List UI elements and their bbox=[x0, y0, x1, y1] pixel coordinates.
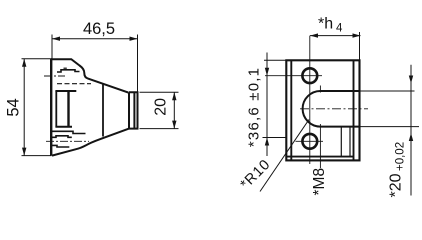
svg-text:4: 4 bbox=[336, 23, 343, 35]
dimension 20+0,02 extension bottom (slot bottom extended) bbox=[360, 126, 420, 128]
svg-text:*20: *20 bbox=[388, 173, 405, 197]
dimension 46,5 arrows bbox=[52, 37, 138, 41]
dimension h4 arrows bbox=[310, 33, 361, 37]
dimension 20 extension bottom bbox=[140, 128, 179, 130]
serration line bottom 3 bbox=[52, 145, 69, 147]
dimension 20+0,02 extension top (slot top extended) bbox=[360, 90, 415, 92]
dimension 54 extension bottom bbox=[22, 155, 52, 157]
svg-text:46,5: 46,5 bbox=[83, 20, 115, 38]
dimension 20 arrows bbox=[172, 92, 176, 128]
svg-text:*h: *h bbox=[318, 16, 333, 33]
dimension 20+0,02 arrows (outside) bbox=[409, 76, 413, 142]
serration line bottom 2 bbox=[52, 136, 72, 138]
dimension h4: dim line bbox=[310, 35, 361, 37]
dimension 54 left: dim line bbox=[23, 59, 25, 156]
slot bottom edge bbox=[320, 126, 359, 128]
dimension 36,6 extension plate-top bbox=[264, 59, 286, 61]
dimension 54 extension top bbox=[22, 58, 53, 60]
slot profile rectangle left view bbox=[55, 91, 76, 127]
plate outline bbox=[286, 60, 359, 160]
dimension 46,5 extension line right bbox=[137, 35, 139, 93]
hole bottom horizontal centerline bbox=[296, 140, 324, 142]
serration tooth mark top bbox=[64, 67, 67, 69]
part outline left view bbox=[51, 59, 138, 156]
dimension 36,6 extension lower bbox=[263, 137, 287, 139]
hole centerline bottom (side view) bbox=[46, 140, 89, 142]
slot arc R10 bbox=[303, 91, 321, 127]
hole top bbox=[302, 68, 317, 83]
plate inner bottom edge bbox=[286, 156, 353, 158]
R10 leader line bbox=[260, 120, 309, 192]
holes vertical centerline (also h4 extension) bbox=[309, 36, 311, 164]
cone seam vertical bbox=[102, 84, 104, 137]
plate inner right edge bbox=[353, 60, 355, 160]
svg-text:20: 20 bbox=[153, 98, 170, 116]
dimension 20+0,02: dim line bbox=[410, 65, 412, 196]
dimension h4 extension right bbox=[359, 32, 361, 60]
dimension 20 dim line bbox=[173, 92, 175, 128]
slot top edge bbox=[320, 90, 359, 92]
hole bottom bbox=[302, 134, 317, 149]
dimension 36,6 arrows (outside) bbox=[265, 68, 269, 146]
dimension 20 extension top bbox=[140, 91, 179, 93]
plate inner left edge bbox=[290, 60, 292, 160]
dimension 46,5 top: dim line bbox=[52, 38, 138, 40]
svg-text:54: 54 bbox=[5, 98, 23, 116]
hole centerline top (side view) bbox=[44, 75, 65, 77]
below-slot edge line 2 bbox=[349, 127, 351, 158]
svg-text:+0,02: +0,02 bbox=[395, 142, 407, 171]
svg-text:*36,6 ±0,1: *36,6 ±0,1 bbox=[246, 67, 263, 147]
dimension 36,6: dim line bbox=[266, 53, 268, 157]
hole top horizontal centerline (also 36,6 extension) bbox=[265, 75, 322, 77]
svg-text:*M8: *M8 bbox=[311, 168, 328, 196]
hidden line top flange bbox=[57, 83, 91, 85]
serration line bottom 1 bbox=[52, 131, 86, 133]
slot vertical centerline tick above bbox=[319, 86, 321, 93]
dimension 46,5 extension line left bbox=[51, 35, 53, 59]
below-slot edge line 1 bbox=[340, 127, 342, 158]
slot horizontal centerline bbox=[300, 108, 368, 110]
M8 leader vertical bbox=[319, 124, 321, 168]
dimension 54 arrows bbox=[22, 59, 26, 156]
serration line top bbox=[57, 70, 80, 72]
